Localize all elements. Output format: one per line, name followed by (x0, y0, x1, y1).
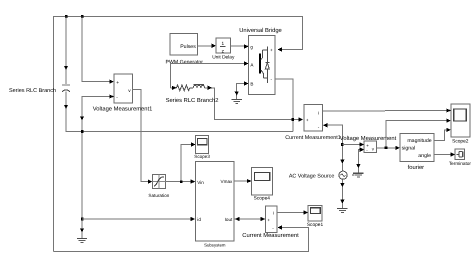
wire arrow down below capacitor at y=107 (64, 105, 68, 109)
label Unit Delay (212, 55, 235, 61)
wire CM1 i output to Scope2 input1 (322, 110, 450, 113)
svg-text:Current Measurement: Current Measurement (242, 232, 299, 239)
svg-text:Series RLC Branch2: Series RLC Branch2 (166, 97, 219, 104)
wire arrowhead on branch2 right (pointing right) (208, 86, 213, 90)
wire VM - to ground (358, 150, 363, 173)
label Scope3 (194, 154, 210, 159)
svg-text:Current Measurement1: Current Measurement1 (285, 135, 340, 141)
block Scope2 (451, 104, 470, 137)
svg-text:Scope3: Scope3 (194, 154, 210, 159)
wire bridge - output down to AC rail (275, 79, 293, 132)
wire arrowhead into Scope1 (304, 210, 309, 214)
block Terminator (455, 149, 464, 160)
svg-text:i: i (318, 111, 319, 116)
wire arrowhead into CM1 - (pointing left) (323, 123, 328, 127)
wire arrowhead into Iout (pointing left) (235, 217, 240, 221)
wire Fourier magnitude to Scope2 input3 (434, 130, 450, 141)
block Universal Bridge (249, 35, 275, 94)
wire arrowhead into Terminator (451, 152, 456, 156)
wire CM i output to Scope1 (277, 212, 307, 214)
wire arrow down at (236.7,94) (235, 92, 239, 96)
svg-text:angle: angle (418, 153, 431, 159)
block PWM Generator (Pulses) (170, 33, 198, 55)
wire arrow down on branch at y=68 (64, 66, 68, 70)
svg-text:+: + (267, 218, 270, 223)
svg-text:Unit Delay: Unit Delay (212, 55, 235, 61)
wire CM1 - from AC Voltage Source (324, 125, 343, 171)
svg-text:magnitude: magnitude (407, 138, 431, 144)
wire arrowhead into VM + (360, 142, 365, 146)
svg-text:Voltage Measurement1: Voltage Measurement1 (93, 105, 153, 112)
wire arrow down at (82,231) (80, 229, 84, 233)
label Current Measurement (242, 232, 299, 239)
wire AC tap to Voltage Measurement + (342, 144, 363, 146)
svg-text:id: id (197, 217, 201, 222)
node junction at (82,16) (81, 15, 84, 18)
svg-text:Universal Bridge: Universal Bridge (239, 27, 282, 34)
label Scope1 (307, 222, 324, 228)
wire arrow down at (342.4,202) (340, 200, 344, 204)
svg-text:B: B (250, 81, 253, 86)
capacitor C of Series RLC Branch (62, 85, 70, 92)
wire arrowhead into Scope3 (191, 142, 196, 146)
block Scope1 (308, 205, 322, 220)
block Voltage Measurement (364, 141, 376, 153)
wire arrowhead into VM - (360, 147, 365, 151)
block Scope3 (196, 136, 209, 154)
wire arrowhead into Subsystem Vin (191, 179, 196, 183)
label Subsystem (204, 243, 226, 248)
node junction at (386,147.9) (385, 147, 388, 150)
label AC Voltage Source (289, 173, 335, 179)
wire arrow down at (82,119) (80, 117, 84, 121)
block Fourier (400, 133, 434, 161)
svg-text:i: i (273, 211, 274, 216)
wire Voltage Measurement1 - down to ground rail (82, 97, 113, 239)
label Current Measurement1 (285, 135, 340, 141)
wire return loop bottom rail into CM - (54, 228, 309, 252)
svg-text:Subsystem: Subsystem (204, 243, 226, 248)
wire arrowhead into bridge + (pointing left) (278, 47, 283, 51)
wire arrowhead into Subsystem id (191, 217, 196, 221)
wire VM1 v output down to Saturation (132, 90, 151, 182)
wire arrowhead into VM1 + (109, 80, 114, 84)
label Fourier (408, 164, 425, 171)
ground G4 below Voltage Measurement (353, 173, 363, 177)
wire id feed from left rail to Subsystem id (82, 218, 194, 220)
svg-text:+: + (116, 81, 119, 86)
wire arrowhead into Saturation (148, 179, 153, 183)
ground G1 below left rail (77, 238, 87, 242)
svg-text:Terminator: Terminator (449, 161, 472, 166)
label Voltage Measurement (340, 135, 397, 142)
wire Fourier angle to Terminator (434, 154, 454, 156)
wire bridge B to ground (237, 84, 248, 100)
block Subsystem (195, 162, 234, 242)
wire Unit Delay to bridge g (230, 45, 247, 47)
wire Series RLC Branch vertical (capacitor leg) (66, 17, 293, 132)
wire arrowhead into Scope2 input2 (446, 119, 451, 123)
label Universal Bridge (239, 27, 282, 34)
wire arrowhead into Scope2 input3 (446, 128, 451, 132)
svg-text:Scope4: Scope4 (254, 196, 271, 202)
wire Subsystem Vmax to Scope4 (234, 180, 250, 182)
node junction at (82,219) (81, 218, 84, 221)
block Voltage Measurement1 (114, 74, 132, 103)
wire Saturation output to Subsystem Vin with branch to Scope3 (166, 145, 195, 182)
wire arrowhead into bridge B (244, 81, 249, 85)
wire arrow down at (342.4,162) (340, 160, 344, 164)
svg-text:Pulses: Pulses (180, 44, 196, 50)
label Voltage Measurement1 (93, 105, 153, 112)
wire arrowhead into VM1 - (109, 94, 114, 98)
svg-text:Vmax: Vmax (221, 179, 233, 184)
wire arrowhead on branch2 left (pointing right) (172, 86, 177, 90)
icon IGBT-diode inside Universal Bridge (260, 47, 269, 84)
block Saturation (152, 174, 165, 188)
block Current Measurement1 (304, 105, 322, 132)
svg-text:Saturation: Saturation (148, 193, 169, 198)
label Series RLC Branch (9, 88, 56, 94)
node junction at (82,131.5) (81, 130, 84, 133)
svg-text:signal: signal (402, 146, 416, 152)
wire arrow down at (358.4,167) (356, 164, 360, 168)
label Saturation (148, 193, 169, 198)
svg-text:Vin: Vin (197, 180, 204, 185)
wire arrowhead into Scope2 input1 (446, 108, 451, 112)
node junction at (181.5,182) (180, 180, 183, 183)
node junction at (66,16) (65, 15, 68, 18)
resistor-inductor Series RLC Branch2 (170, 85, 300, 120)
svg-text:AC Voltage Source: AC Voltage Source (289, 173, 335, 179)
label Series RLC Branch2 (166, 97, 219, 104)
label Scope4 (254, 196, 271, 202)
svg-text:Iout: Iout (225, 217, 233, 222)
svg-text:g: g (250, 45, 253, 50)
node junction at (342.4,144.5) (341, 143, 344, 146)
source AC Voltage Source (339, 171, 355, 179)
ground G2 below bridge B (232, 99, 242, 103)
wire arrowhead into Scope4 (247, 179, 252, 183)
wire AC source bottom to ground (341, 179, 343, 208)
wire bridge A input from Series RLC Branch2 left (170, 64, 248, 88)
wire arrowhead into Unit Delay (212, 44, 217, 48)
block Scope4 (251, 168, 272, 195)
label PWM Generator (166, 59, 204, 65)
svg-text:fourier: fourier (408, 164, 425, 171)
label Scope2 (452, 139, 469, 145)
svg-text:Scope2: Scope2 (452, 139, 469, 145)
wire arrowhead into CM + (pointing right) (261, 217, 266, 221)
wire arrowhead into bridge g (244, 44, 249, 48)
wire arrowhead into CM - (pointing left) (277, 225, 282, 229)
svg-text:Voltage Measurement: Voltage Measurement (340, 135, 397, 142)
wire arrow down at (342.4,185.5) (340, 183, 344, 187)
ground G3 below AC source (337, 208, 347, 212)
wire measurement tap to Voltage Measurement1 + (82, 17, 113, 82)
wire arrowhead into CM1 + (299, 117, 304, 121)
block Unit Delay (216, 38, 230, 54)
svg-text:Scope1: Scope1 (307, 222, 324, 228)
svg-text:+: + (270, 47, 273, 52)
wire top DC rail from left branch to bridge + (54, 17, 303, 252)
svg-text:PWM Generator: PWM Generator (166, 59, 204, 65)
label Terminator (449, 161, 472, 166)
svg-text:Series RLC Branch: Series RLC Branch (9, 88, 56, 94)
block Current Measurement (265, 206, 277, 233)
wire arrowhead into bridge A (244, 61, 249, 65)
node junction at (292.9,119.5) (292, 118, 295, 121)
wire Subsystem Iout to Current Measurement + (double arrows) (234, 218, 265, 220)
wire arrowhead into Fourier signal (395, 146, 400, 150)
svg-text:+: + (306, 118, 309, 123)
wire VM v output to Fourier signal and Scope2 input2 (377, 121, 450, 148)
wire Pulses to Unit Delay (198, 45, 216, 47)
svg-text:1: 1 (221, 41, 224, 46)
